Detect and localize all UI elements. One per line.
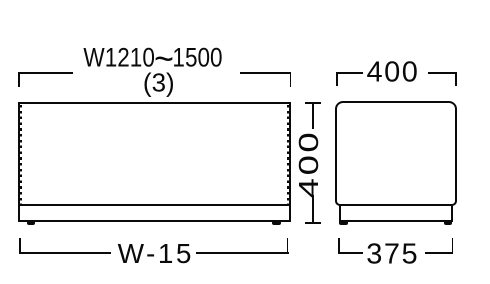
front view body rectangle: [18, 102, 291, 222]
side view left foot: [339, 221, 348, 225]
front view left stitch dashed line: [20, 105, 22, 204]
bottom-right dimension line left segment: [338, 252, 363, 254]
label W1210~1500: [83, 43, 222, 74]
front view plinth separation line: [18, 204, 291, 207]
bottom-left dimension right tick: [287, 238, 289, 253]
bottom-left dimension line right segment: [196, 252, 289, 254]
top-right dimension line right segment: [428, 72, 457, 74]
top dimension line left segment: [18, 72, 73, 74]
vertical dimension top tick: [305, 102, 321, 104]
front view left foot: [27, 221, 36, 225]
top-right dimension left tick: [336, 72, 338, 86]
front view right foot: [272, 221, 281, 225]
vertical dimension line lower segment: [312, 195, 314, 224]
bottom-right dimension right tick: [452, 238, 454, 253]
side view body rounded rectangle: [335, 101, 457, 206]
top-right dimension right tick: [455, 72, 457, 86]
label 375: [366, 238, 419, 271]
vertical dimension line upper segment: [312, 103, 314, 129]
bottom-right dimension line right segment: [425, 252, 453, 254]
top dimension line right segment: [240, 72, 292, 74]
bottom-left dimension left tick: [19, 238, 21, 253]
label 400 top: [366, 57, 419, 90]
front view right stitch dashed line: [287, 105, 289, 204]
label W-15: [118, 238, 194, 270]
top dimension right tick: [290, 72, 292, 87]
side view right foot: [444, 221, 453, 225]
side view plinth: [339, 204, 453, 222]
bottom-right dimension left tick: [338, 238, 340, 253]
label 400 vertical: [293, 130, 325, 199]
top dimension left tick: [18, 72, 20, 87]
label (3): [143, 68, 175, 99]
vertical dimension bottom tick: [305, 222, 321, 224]
top-right dimension line left segment: [336, 72, 363, 74]
bottom-left dimension line left segment: [19, 252, 111, 254]
